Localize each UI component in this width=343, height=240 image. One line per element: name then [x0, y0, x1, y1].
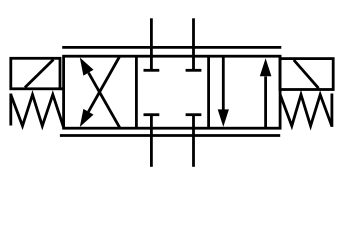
crossed flow arrow (position a, arrowhead up-left) — [80, 58, 120, 128]
port line T (bottom right) — [192, 115, 195, 167]
divider position 0 / b — [207, 56, 210, 128]
straight flow arrow up (position b) — [260, 58, 272, 128]
valve body outline (3-position envelope) — [64, 56, 281, 128]
port line P (bottom left) — [150, 115, 153, 167]
left return spring — [11, 95, 64, 127]
blocked port T-bar B — [186, 69, 202, 72]
divider position a / 0 — [135, 56, 138, 128]
solenoid S1 diagonal — [25, 60, 54, 88]
wire: upper parallel rail (proportional valve line) — [62, 46, 281, 49]
crossed flow arrow (position a, arrowhead down-left) — [80, 57, 120, 127]
solenoid S1 box bottom stub to valve body — [60, 87, 64, 90]
blocked port T-bar A — [144, 69, 160, 72]
wire: lower parallel rail (proportional valve line) — [60, 134, 280, 137]
right return spring — [280, 95, 332, 127]
port line B (top right) — [192, 18, 195, 70]
solenoid S2 diagonal — [294, 60, 319, 88]
blocked port T-bar P — [144, 113, 160, 116]
port line A (top left) — [150, 18, 153, 70]
blocked port T-bar T — [186, 113, 202, 116]
right spring end plate — [330, 94, 333, 127]
left spring end plate — [9, 94, 12, 126]
solenoid box S2 (right) — [280, 59, 333, 90]
solenoid box S1 (left) — [11, 58, 60, 89]
straight flow arrow down (position b) — [218, 56, 229, 127]
